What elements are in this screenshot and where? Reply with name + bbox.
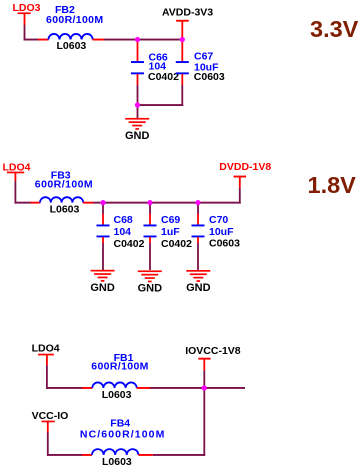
wire to FB2 pin 1	[38, 39, 49, 41]
svg-text:GND: GND	[138, 283, 163, 295]
svg-text:C69: C69	[161, 214, 180, 226]
power symbol DVDD-1V8	[234, 176, 247, 188]
wire VCC-IO corner	[47, 433, 49, 456]
svg-text:L0603: L0603	[102, 456, 132, 468]
wire net DVDD-1V8 horizontal	[93, 202, 240, 204]
svg-text:NC/600R/100M: NC/600R/100M	[80, 428, 166, 440]
svg-text:IOVCC-1V8: IOVCC-1V8	[185, 345, 241, 357]
wire net AVDD-3V3 horizontal	[104, 39, 183, 41]
port LDO3	[13, 2, 41, 14]
ferrite bead FB3	[40, 197, 83, 202]
port LDO4	[3, 161, 31, 173]
wire C70 to ground	[197, 243, 199, 270]
wire to FB3 pin 1	[31, 202, 41, 204]
wire FB4 pin 2	[138, 454, 153, 456]
svg-text:1uF: 1uF	[161, 226, 180, 238]
svg-text:C0603: C0603	[209, 238, 240, 250]
wire C67 to ground rail	[181, 85, 183, 106]
wire to FB1 pin 1	[82, 387, 92, 389]
pin of LDO3 port	[24, 14, 26, 26]
svg-text:LDO3: LDO3	[13, 2, 41, 14]
wire IOVCC pin to junction	[203, 371, 205, 389]
junction at C70	[195, 200, 200, 205]
port stub VCC-IO	[42, 421, 55, 423]
pin of LDO4 (bottom)	[46, 355, 48, 365]
svg-text:600R/100M: 600R/100M	[35, 178, 93, 190]
wire riser to DVDD-1V8	[239, 188, 241, 204]
svg-text:DVDD-1V8: DVDD-1V8	[219, 161, 271, 173]
svg-text:C0402: C0402	[114, 238, 145, 250]
svg-text:L0603: L0603	[50, 203, 80, 215]
svg-text:C0402: C0402	[148, 71, 179, 83]
junction at IOVCC-1V8	[202, 385, 207, 390]
port stub LDO4 (bottom)	[38, 354, 54, 356]
capacitor C70	[192, 204, 205, 244]
svg-text:AVDD-3V3: AVDD-3V3	[162, 7, 213, 19]
wire C69 to ground	[149, 243, 151, 270]
junction at C67 / AVDD	[180, 37, 185, 42]
svg-text:L0603: L0603	[102, 389, 132, 401]
wire junction down to FB4 row	[203, 388, 205, 456]
wire FB4 to riser	[153, 454, 205, 456]
ground GND at C70	[186, 270, 210, 272]
junction at C68	[100, 200, 105, 205]
junction at C69	[147, 200, 152, 205]
wire stub right of junction	[204, 387, 245, 389]
capacitor C68	[97, 204, 110, 244]
wire C66 to ground rail	[137, 85, 139, 106]
svg-text:C68: C68	[114, 214, 133, 226]
ferrite bead FB4	[92, 449, 138, 455]
wire to IOVCC-1V8 junction	[150, 387, 205, 389]
wire FB3 pin 2	[83, 202, 94, 204]
svg-text:C67: C67	[194, 51, 213, 63]
svg-text:LDO4: LDO4	[3, 161, 31, 173]
svg-text:VCC-IO: VCC-IO	[32, 410, 69, 422]
wire LDO4 corner	[15, 181, 17, 204]
junction at C66	[135, 37, 140, 42]
svg-text:GND: GND	[125, 130, 150, 142]
wire C68 to ground	[102, 243, 104, 270]
svg-text:C70: C70	[209, 214, 228, 226]
wire to FB4 pin 1	[82, 454, 92, 456]
svg-text:C0603: C0603	[194, 71, 225, 83]
pin of LDO4 port	[15, 173, 17, 181]
pin of VCC-IO	[47, 422, 49, 433]
ground GND at C69	[138, 270, 162, 272]
ferrite bead FB2	[48, 34, 92, 40]
wire FB1 pin 2	[137, 387, 151, 389]
svg-text:104: 104	[114, 226, 132, 238]
power symbol IOVCC-1V8	[198, 358, 210, 371]
capacitor C69	[144, 204, 157, 244]
junction at ground rail	[135, 102, 140, 107]
svg-text:GND: GND	[186, 282, 211, 294]
wire FB2 pin 2	[93, 39, 105, 41]
svg-text:LDO4: LDO4	[32, 342, 60, 354]
ferrite bead FB1	[92, 382, 136, 388]
svg-text:C0402: C0402	[161, 238, 192, 250]
capacitor C67	[176, 40, 189, 86]
wire ground rail	[137, 104, 184, 106]
capacitor C66	[131, 40, 144, 86]
wire LDO4 corner (bottom)	[46, 365, 48, 389]
svg-text:10uF: 10uF	[209, 226, 234, 238]
power symbol AVDD-3V3	[176, 20, 189, 40]
wire to GND symbol	[137, 105, 139, 118]
svg-text:600R/100M: 600R/100M	[46, 14, 103, 26]
svg-text:GND: GND	[90, 282, 115, 294]
ground GND (3.3V section)	[125, 118, 149, 120]
wire LDO3 corner	[24, 25, 26, 41]
svg-text:600R/100M: 600R/100M	[91, 361, 148, 373]
ground GND at C68	[91, 270, 115, 272]
svg-text:3.3V: 3.3V	[310, 16, 359, 42]
svg-text:1.8V: 1.8V	[308, 172, 357, 198]
svg-text:L0603: L0603	[57, 40, 87, 52]
